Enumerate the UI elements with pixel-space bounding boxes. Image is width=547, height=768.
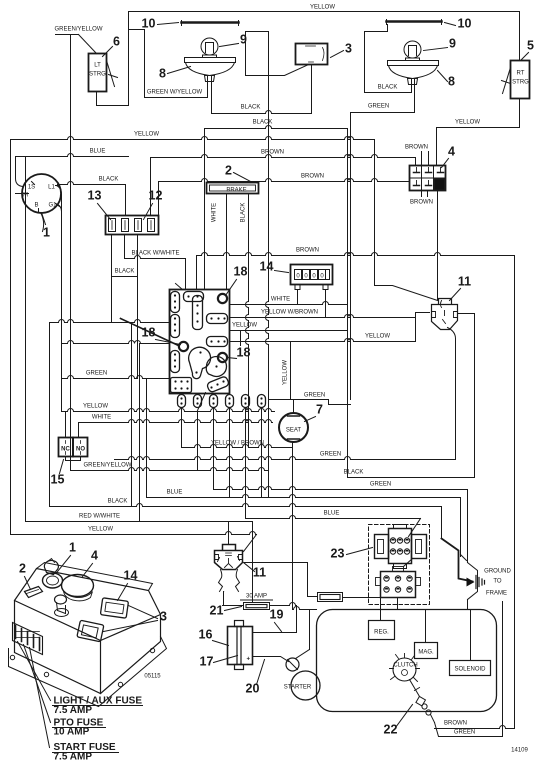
pcb internal stub — [240, 331, 242, 346]
v drop c — [146, 379, 148, 498]
w lt strg bot — [97, 105, 129, 107]
svg-text:16: 16 — [199, 628, 213, 642]
v brake black — [246, 194, 249, 448]
v brake white — [226, 194, 228, 290]
svg-text:4: 4 — [448, 145, 455, 159]
v mag — [425, 610, 427, 643]
svg-text:6: 6 — [113, 35, 120, 49]
svg-text:30 AMP: 30 AMP — [246, 594, 267, 600]
v center bus — [266, 32, 269, 498]
svg-text:BLACK W/WHITE: BLACK W/WHITE — [131, 251, 179, 257]
wire ignition leads — [16, 157, 23, 187]
svg-text:14109: 14109 — [511, 748, 528, 754]
v j11b left bot — [223, 592, 225, 606]
v conn13 b — [124, 235, 126, 259]
v pcb bot 5 — [245, 408, 247, 519]
svg-text:YELLOW: YELLOW — [83, 404, 108, 410]
connector J11 upper — [432, 299, 458, 330]
svg-text:13: 13 — [88, 189, 102, 203]
v conn12 black feed — [125, 185, 127, 216]
w j11u left link — [416, 312, 430, 314]
clutch — [393, 658, 416, 681]
svg-text:YELLOW: YELLOW — [455, 120, 480, 126]
connector J12/J13 — [106, 216, 159, 235]
pcb pad J diag — [206, 376, 229, 393]
w GREEN lamp2 — [351, 112, 415, 114]
pcb pad E — [207, 337, 228, 347]
svg-text:BLUE: BLUE — [90, 149, 106, 155]
v black2 drop — [347, 129, 349, 478]
w bus pcb y343 — [62, 341, 170, 344]
w BLUE — [16, 154, 129, 157]
wire battery positive cable — [253, 657, 289, 662]
v bracket low — [467, 600, 469, 610]
magneto MAG — [415, 643, 438, 659]
v seat chain — [292, 442, 294, 610]
svg-text:14: 14 — [260, 260, 274, 274]
wire pad J diag lead — [198, 393, 206, 411]
svg-text:1: 1 — [69, 541, 76, 555]
console knob 4 — [62, 575, 94, 597]
svg-text:9: 9 — [449, 37, 456, 51]
wire flasher lower-left lead — [246, 65, 309, 76]
pcb pad I grid — [171, 378, 192, 393]
svg-text:BLACK: BLACK — [115, 269, 135, 275]
w YELLOW bot — [11, 532, 257, 535]
console rocker 3 — [77, 620, 104, 642]
pcb pad D — [207, 314, 228, 324]
v black bus pcb — [204, 129, 206, 290]
w BROWN engine — [435, 726, 515, 729]
wire green seat jog — [329, 400, 351, 405]
svg-text:BLACK: BLACK — [344, 470, 364, 476]
v pcb bot 2 — [197, 412, 199, 471]
w flasher lead2 — [246, 31, 269, 33]
clutch linkage — [410, 680, 420, 697]
svg-text:CLUTCH: CLUTCH — [393, 663, 417, 669]
console body — [15, 569, 161, 694]
v meter pin r — [325, 290, 327, 318]
svg-text:GREEN: GREEN — [86, 371, 107, 377]
svg-text:20: 20 — [246, 682, 260, 696]
svg-text:BLACK: BLACK — [253, 120, 273, 126]
solenoid — [450, 661, 491, 676]
w fuse21 left — [223, 605, 244, 607]
v rt strg top — [519, 12, 521, 61]
v black lamp2 up — [364, 32, 366, 93]
svg-text:WHITE: WHITE — [92, 415, 111, 421]
svg-text:05115: 05115 — [144, 674, 161, 680]
v lamp2 pin l — [411, 80, 413, 93]
svg-text:STARTER: STARTER — [284, 685, 312, 691]
v ign B — [49, 323, 51, 507]
svg-text:1S: 1S — [28, 185, 35, 191]
svg-text:0: 0 — [320, 274, 324, 280]
v drop a — [131, 323, 133, 507]
w jog top — [129, 29, 145, 31]
v yellow drop — [374, 140, 376, 286]
svg-text:1: 1 — [43, 226, 50, 240]
svg-text:GREEN/YELLOW: GREEN/YELLOW — [54, 27, 102, 33]
lamp housing 8 left — [185, 58, 236, 63]
w BLACK lamp2 — [365, 92, 412, 94]
w BROWN bus1 — [151, 155, 416, 158]
svg-text:YELLOW / BROWN: YELLOW / BROWN — [211, 441, 264, 447]
fuse upper — [318, 593, 343, 602]
w fuse upper link — [343, 597, 381, 599]
w YELLOW bus — [11, 137, 375, 140]
w BROWN bus3 — [197, 253, 515, 256]
pcb pad C — [171, 315, 180, 338]
light bar 10 left — [182, 21, 239, 24]
w BLACK bus2 — [205, 126, 348, 129]
w BLACK mid — [348, 477, 475, 479]
svg-text:WHITE: WHITE — [212, 203, 218, 222]
ignition switch SW1 — [22, 174, 61, 213]
svg-text:15: 15 — [51, 473, 65, 487]
svg-text:2: 2 — [225, 164, 232, 178]
svg-text:BLUE: BLUE — [324, 511, 340, 517]
v pcb top c — [196, 256, 198, 290]
w fuse21 right — [270, 603, 297, 606]
svg-text:YELLOW W/BROWN: YELLOW W/BROWN — [261, 310, 318, 316]
pcb grommet 18b — [179, 342, 188, 351]
w BLACK W/WHITE — [125, 256, 186, 259]
connector J4 — [410, 166, 446, 191]
pcb pad H blob — [206, 357, 226, 377]
v pcb bot 1 — [181, 408, 183, 448]
wire j11u right — [458, 313, 475, 315]
v lt strg bot — [96, 92, 98, 106]
svg-text:BLACK: BLACK — [241, 105, 261, 111]
w BLUE conn23 — [246, 516, 421, 519]
svg-text:WHITE: WHITE — [271, 297, 290, 303]
w YELLOW rt strg — [437, 127, 520, 129]
seat switch SW7 — [279, 413, 308, 442]
ground symbol — [467, 578, 475, 587]
w batt top cable — [253, 632, 297, 634]
pcb pad B T-shape — [184, 292, 204, 302]
w GREEN low right — [214, 487, 468, 490]
w YELLOW j11 — [230, 339, 416, 342]
svg-text:B: B — [34, 203, 38, 209]
svg-text:5: 5 — [527, 39, 534, 53]
console boot 2 — [25, 587, 43, 598]
starter post — [286, 658, 299, 671]
connector J11 lower — [215, 545, 243, 570]
v solenoid — [470, 610, 472, 661]
pcb top diag lead — [176, 284, 183, 290]
wire j11b yellow diag — [244, 535, 257, 552]
svg-text:3: 3 — [160, 610, 167, 624]
v conn4 top feed — [415, 158, 417, 166]
svg-text:GREEN/YELLOW: GREEN/YELLOW — [83, 463, 131, 469]
svg-text:7.5 AMP: 7.5 AMP — [54, 705, 93, 716]
svg-text:12: 12 — [149, 189, 163, 203]
wire blue diag conn23 — [409, 519, 421, 537]
v yellow label vert — [290, 342, 292, 400]
v j11u left — [415, 313, 417, 342]
w GREEN W/YELLOW — [145, 97, 208, 99]
v conn4 to j11 — [437, 191, 439, 300]
svg-text:BROWN: BROWN — [405, 145, 428, 151]
svg-text:14: 14 — [124, 569, 138, 583]
v starter diag up — [309, 610, 311, 650]
w GREEN/YELLOW top — [56, 34, 79, 36]
lamp housing 8 right — [388, 61, 439, 66]
brake switch SW2 — [207, 183, 259, 194]
svg-text:BROWN: BROWN — [261, 150, 284, 156]
v bw pcb feed — [185, 259, 187, 290]
w YELLOW pcb — [230, 330, 347, 332]
svg-text:STRG: STRG — [512, 80, 529, 86]
pcb pad F blob — [189, 347, 211, 378]
w BLACK low — [50, 504, 442, 507]
wire ground bracket — [468, 563, 478, 600]
svg-text:8: 8 — [448, 75, 455, 89]
w YELLOW nc — [62, 409, 275, 412]
svg-text:0: 0 — [304, 274, 308, 280]
connector J23 lower — [381, 572, 416, 598]
svg-text:GREEN: GREEN — [368, 104, 389, 110]
pcb pad A — [171, 292, 180, 313]
svg-text:7: 7 — [316, 403, 323, 417]
svg-text:GREEN: GREEN — [370, 482, 391, 488]
v green frame — [502, 602, 504, 737]
svg-text:11: 11 — [458, 275, 471, 289]
w YELLOW top — [129, 11, 520, 13]
console fuse block — [13, 623, 43, 655]
wire j11u bot diag — [448, 328, 456, 339]
v meter pin l — [297, 290, 299, 305]
lt strg switch U6 — [89, 54, 107, 92]
svg-text:BROWN: BROWN — [444, 721, 467, 727]
engine outline — [317, 610, 497, 712]
v seat top stub — [293, 400, 295, 414]
starter M — [291, 671, 320, 700]
switch SW15 NC NO — [59, 438, 74, 457]
v conn12 c — [137, 235, 139, 379]
svg-text:YELLOW: YELLOW — [365, 334, 390, 340]
svg-text:BROWN: BROWN — [296, 248, 319, 254]
wire green/yellow diag — [79, 35, 97, 54]
pcb pad G — [171, 351, 180, 373]
v conn4 stub — [427, 191, 429, 197]
svg-text:REG.: REG. — [374, 630, 389, 636]
svg-text:3: 3 — [345, 42, 352, 56]
v green right — [467, 490, 469, 563]
lamp bulb 9 right — [404, 41, 421, 58]
svg-text:SEAT: SEAT — [286, 428, 302, 434]
w BLACK ign — [58, 182, 126, 185]
v right rail — [514, 256, 516, 729]
svg-text:BLACK: BLACK — [241, 203, 247, 223]
connector J23 dashed box — [369, 525, 430, 605]
v j23 down — [397, 598, 399, 610]
svg-text:10 AMP: 10 AMP — [54, 727, 90, 738]
svg-text:8: 8 — [159, 67, 166, 81]
wire to ground — [442, 539, 473, 582]
svg-text:BLACK: BLACK — [378, 85, 398, 91]
svg-text:YELLOW: YELLOW — [88, 527, 113, 533]
switch U5 RT STRG — [511, 61, 530, 99]
v flasher bot — [311, 65, 313, 114]
v no stub — [78, 423, 80, 438]
v left rail blue — [25, 157, 27, 522]
w engine top link — [293, 607, 317, 610]
v green/yellow bus — [70, 35, 72, 471]
w WHITE no — [79, 420, 273, 423]
v conn13 a — [111, 235, 113, 323]
svg-text:11: 11 — [253, 566, 266, 580]
w GREEN pcb — [62, 376, 170, 379]
console small knob — [55, 595, 67, 604]
v conn12 brown feed — [150, 158, 152, 216]
w YELLOW/BROWN seat — [182, 445, 293, 448]
pcb grommet 18c — [218, 353, 227, 362]
svg-text:GROUND: GROUND — [484, 569, 511, 575]
w YELLOW W/BROWN — [230, 315, 416, 318]
w BROWN bus2 — [159, 179, 410, 182]
v lamp jog — [144, 30, 146, 98]
wire j11u diag feed — [375, 286, 438, 301]
svg-text:22: 22 — [384, 723, 398, 737]
svg-text:TO: TO — [493, 579, 502, 585]
svg-text:7.5 AMP: 7.5 AMP — [54, 752, 93, 763]
svg-text:0: 0 — [312, 274, 316, 280]
v lamp2 pin r — [414, 80, 416, 113]
svg-text:GREEN: GREEN — [304, 393, 325, 399]
v brown2 feed — [158, 182, 160, 216]
svg-text:GREEN: GREEN — [454, 730, 475, 736]
connector J23 upper — [375, 535, 389, 559]
v j11u bot green — [455, 339, 457, 460]
v yellow feed — [128, 12, 130, 106]
v blue drop right — [460, 498, 462, 557]
pcb bottom terminals — [178, 395, 186, 408]
svg-text:23: 23 — [331, 547, 345, 561]
lamp bulb 9 left — [201, 38, 218, 55]
svg-text:18: 18 — [142, 326, 156, 340]
svg-text:L1: L1 — [48, 185, 55, 191]
v lamp1 pin l — [207, 77, 209, 98]
svg-text:YELLOW: YELLOW — [310, 5, 335, 11]
w bus pcb y322 — [50, 320, 170, 323]
v bar2 stub — [387, 25, 389, 32]
v lamp1 pin r — [211, 77, 213, 114]
v ground drop — [441, 507, 443, 539]
svg-text:2: 2 — [19, 562, 26, 576]
svg-text:LT: LT — [94, 63, 101, 69]
svg-text:SOLENOID: SOLENOID — [454, 667, 486, 673]
v ign link a — [61, 195, 63, 412]
console key switch — [43, 573, 63, 588]
interlock PCB outline — [170, 290, 230, 394]
v nc stub — [65, 412, 67, 438]
svg-text:17: 17 — [200, 655, 214, 669]
svg-text:YELLOW: YELLOW — [134, 132, 159, 138]
svg-text:0: 0 — [296, 274, 300, 280]
svg-text:YELLOW: YELLOW — [232, 323, 257, 329]
svg-text:10: 10 — [142, 17, 156, 31]
svg-text:GREEN: GREEN — [320, 452, 341, 458]
battery B16 — [228, 627, 253, 665]
v j11b lid — [228, 522, 230, 545]
v conn4 yellow — [436, 128, 438, 166]
svg-text:GREEN W/YELLOW: GREEN W/YELLOW — [147, 90, 203, 96]
w GREEN mid — [115, 457, 456, 460]
v rt strg bot — [519, 99, 521, 128]
hour meter M14 — [291, 265, 333, 285]
svg-text:BRAKE: BRAKE — [226, 188, 246, 194]
w WHITE pcb — [230, 302, 347, 305]
svg-text:BLACK: BLACK — [108, 499, 128, 505]
light bar 10 right — [387, 20, 442, 23]
wire j11b to upper fuse — [245, 563, 318, 597]
v pcb bot 3 — [213, 408, 215, 490]
w BLACK lamp1 — [212, 111, 312, 114]
svg-text:RT: RT — [517, 71, 525, 77]
svg-text:BLACK: BLACK — [99, 177, 119, 183]
svg-text:YELLOW: YELLOW — [283, 360, 289, 385]
pcb grommet 18a — [218, 294, 227, 303]
regulator REG — [369, 621, 395, 640]
w RED W/WHITE — [26, 521, 253, 523]
fuse leader lines — [18, 642, 51, 701]
v pcb bot 4 — [229, 408, 231, 498]
svg-text:9: 9 — [240, 33, 247, 47]
svg-text:19: 19 — [270, 608, 284, 622]
svg-text:10: 10 — [458, 17, 472, 31]
svg-text:+: + — [247, 657, 251, 663]
svg-text:4: 4 — [91, 549, 98, 563]
w GREEN seat — [269, 399, 329, 401]
v reg — [380, 598, 382, 621]
console hour meter 14 — [100, 598, 128, 618]
v left rail yellow — [10, 140, 12, 535]
svg-text:MAG.: MAG. — [418, 650, 434, 656]
w GREEN/YELLOW low — [71, 468, 269, 471]
svg-text:RED W/WHITE: RED W/WHITE — [79, 514, 120, 520]
svg-text:BROWN: BROWN — [410, 200, 433, 206]
v j11u right — [474, 314, 476, 478]
w conn13 black link — [112, 276, 138, 278]
v red to fuse21 — [252, 522, 254, 602]
flasher U3 — [296, 44, 328, 65]
w BLUE left — [147, 495, 461, 498]
svg-text:STRG: STRG — [89, 72, 106, 78]
w bar2 link — [365, 31, 388, 33]
v fuse21 to batt — [296, 606, 298, 633]
v green lamp2 drop — [350, 113, 352, 400]
svg-text:18: 18 — [237, 346, 251, 360]
svg-text:BLUE: BLUE — [167, 490, 183, 496]
svg-text:FRAME: FRAME — [486, 591, 507, 597]
svg-text:21: 21 — [210, 604, 224, 618]
v flasher left — [245, 32, 247, 76]
v drop b — [139, 344, 141, 522]
v pcb bot 6 — [261, 408, 263, 498]
svg-text:18: 18 — [234, 265, 248, 279]
svg-text:BROWN: BROWN — [301, 174, 324, 180]
